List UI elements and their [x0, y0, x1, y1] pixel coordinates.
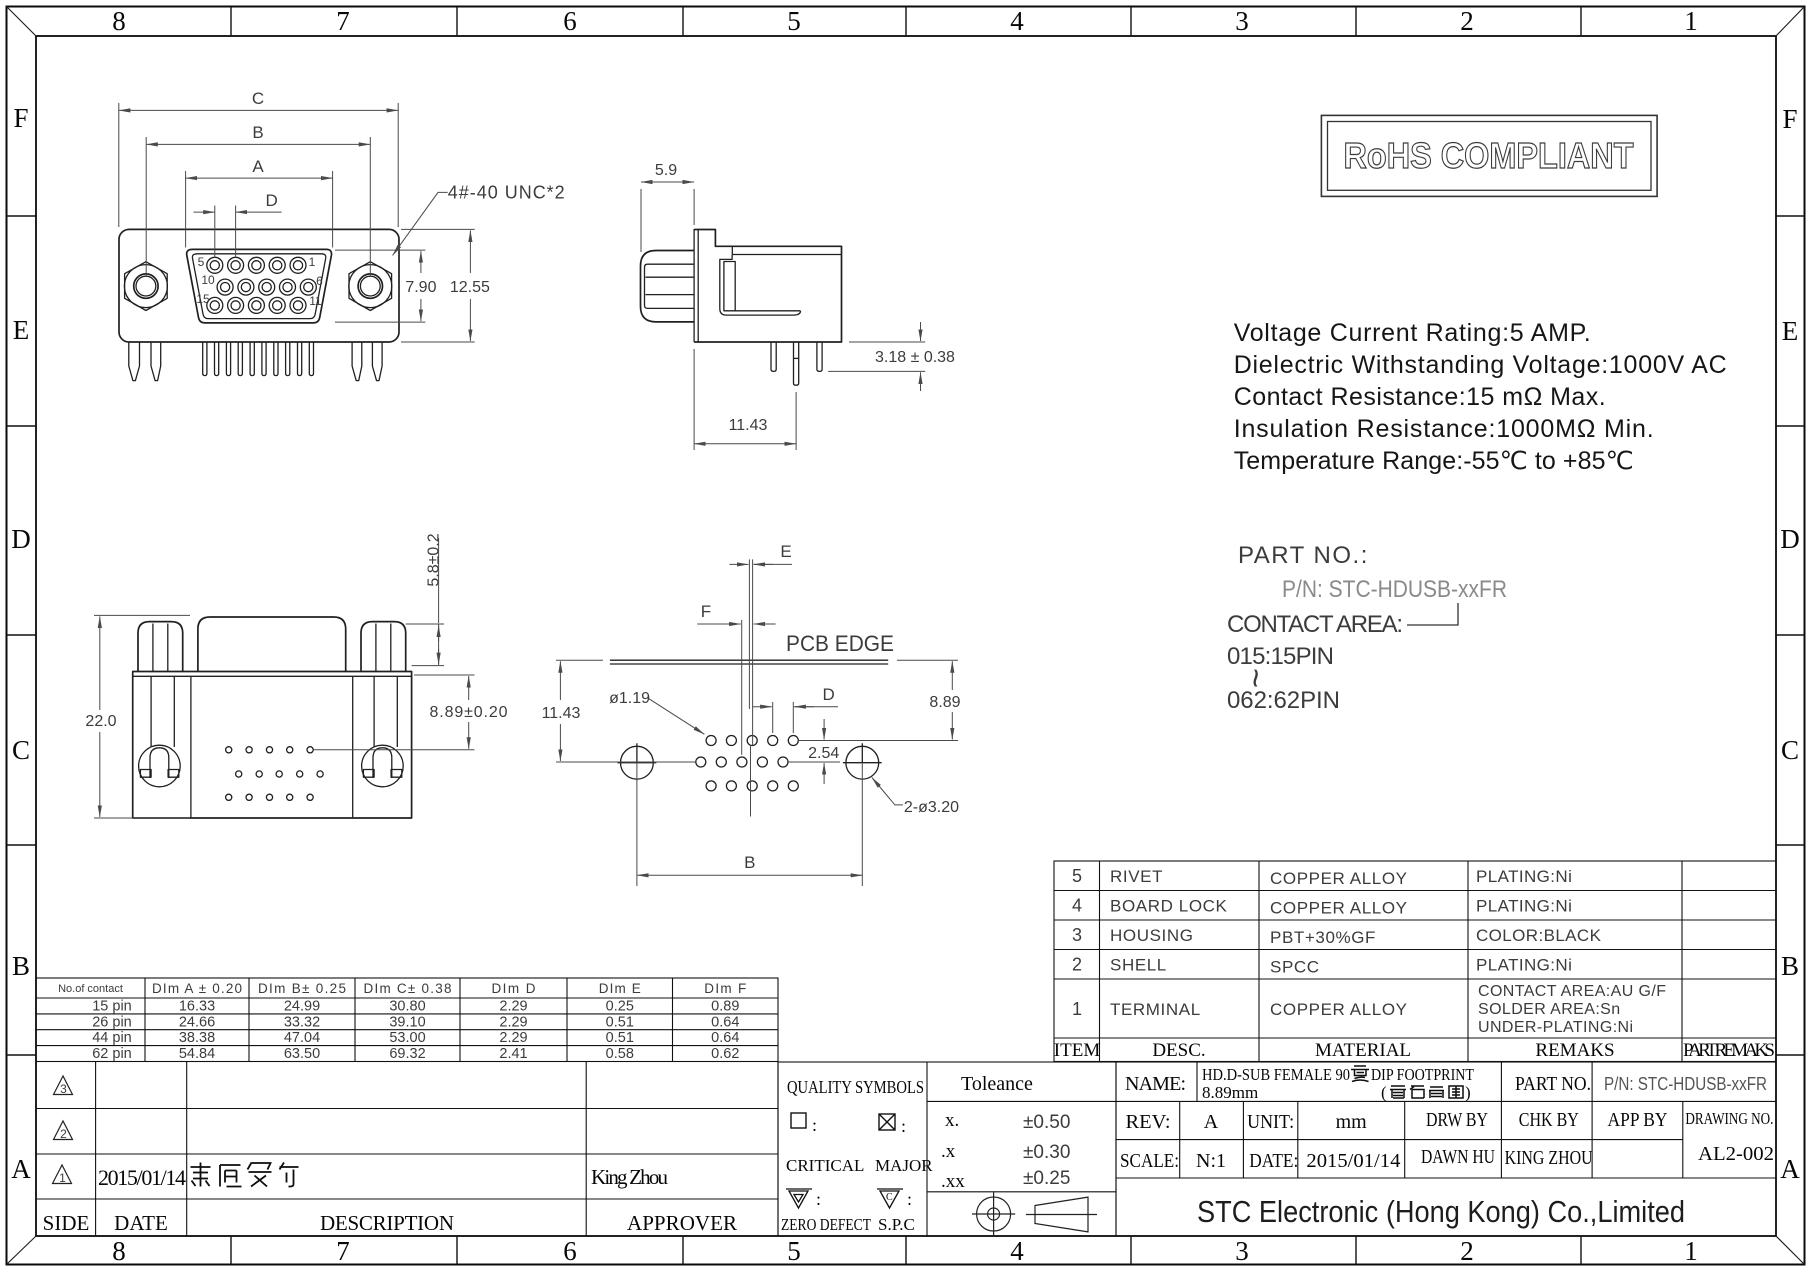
rear left hex nut	[138, 622, 183, 672]
svg-text:REV:: REV:	[1126, 1111, 1171, 1133]
svg-text:24.66: 24.66	[179, 1014, 215, 1030]
svg-text:0.89: 0.89	[711, 999, 739, 1015]
svg-text:1: 1	[59, 1171, 66, 1185]
footprint hole circles row2	[696, 757, 788, 767]
svg-text:5.9: 5.9	[655, 162, 677, 179]
svg-text:DAWN HU: DAWN HU	[1421, 1146, 1495, 1168]
dim table data rows	[92, 999, 739, 1063]
svg-text:DIm E: DIm E	[599, 981, 641, 996]
leader 4#-40 UNC*2	[393, 192, 448, 255]
revision triangle 2	[54, 1121, 73, 1141]
svg-text:D: D	[265, 191, 277, 210]
svg-text:47.04: 47.04	[284, 1030, 320, 1046]
svg-text:King Zhou: King Zhou	[591, 1165, 669, 1189]
svg-text:0.51: 0.51	[606, 1030, 634, 1046]
zone numbers bottom	[112, 1236, 1698, 1266]
svg-text:39.10: 39.10	[389, 1014, 425, 1030]
BOM item numbers	[1072, 866, 1082, 1019]
svg-text:2.29: 2.29	[499, 1014, 527, 1030]
svg-text:5.8±0.2: 5.8±0.2	[426, 533, 443, 586]
svg-text:2: 2	[60, 1127, 67, 1141]
svg-text:11.43: 11.43	[542, 705, 581, 722]
revision triangle 1	[53, 1165, 72, 1185]
svg-text:DIm B± 0.25: DIm B± 0.25	[258, 981, 346, 996]
svg-text:ø1.19: ø1.19	[609, 690, 650, 707]
rear right hex nut	[361, 622, 406, 672]
svg-text:E: E	[780, 542, 791, 561]
side body outline	[694, 230, 841, 343]
svg-text:PBT+30%GF: PBT+30%GF	[1270, 928, 1376, 947]
rear pin dots row1	[226, 747, 314, 753]
svg-text:RIVET: RIVET	[1110, 867, 1163, 886]
major symbol (boxed X)	[879, 1114, 895, 1130]
side body L-channel	[720, 255, 801, 315]
svg-text:1: 1	[1684, 6, 1698, 36]
dim table headers	[58, 981, 746, 996]
svg-text:7: 7	[336, 6, 350, 36]
svg-text:3: 3	[60, 1082, 67, 1096]
svg-text:015:15PIN: 015:15PIN	[1227, 643, 1334, 670]
dimension C	[119, 103, 398, 227]
svg-text:No.of contact: No.of contact	[58, 983, 123, 995]
svg-text:24.99: 24.99	[284, 999, 320, 1015]
svg-text:COPPER ALLOY: COPPER ALLOY	[1270, 1000, 1408, 1019]
svg-text:Insulation Resistance:1000MΩ M: Insulation Resistance:1000MΩ Min.	[1234, 415, 1654, 443]
svg-text:HOUSING: HOUSING	[1110, 926, 1194, 945]
svg-text:DIm C± 0.38: DIm C± 0.38	[364, 981, 452, 996]
svg-text:CRITICAL: CRITICAL	[786, 1156, 864, 1175]
svg-text:C: C	[1781, 735, 1799, 765]
svg-text:4: 4	[1010, 6, 1024, 36]
revision table headers	[43, 1211, 737, 1235]
svg-text:.xx: .xx	[941, 1171, 965, 1192]
side pins	[771, 342, 822, 385]
svg-text:3: 3	[1235, 1236, 1249, 1266]
right hole centerline	[861, 763, 863, 886]
svg-text::: :	[812, 1115, 817, 1135]
svg-text:2: 2	[1460, 6, 1474, 36]
BOM header row	[1054, 1040, 1775, 1061]
side jack screw nut	[641, 251, 695, 322]
svg-text:B: B	[744, 853, 755, 872]
svg-text:1: 1	[1072, 999, 1082, 1019]
svg-text:SOLDER AREA:Sn: SOLDER AREA:Sn	[1478, 1001, 1621, 1018]
svg-text:4: 4	[1010, 1236, 1024, 1266]
svg-text:REMAKS: REMAKS	[1535, 1040, 1614, 1061]
svg-text:062:62PIN: 062:62PIN	[1227, 687, 1340, 714]
svg-text::: :	[907, 1189, 912, 1209]
svg-text:1: 1	[1684, 1236, 1698, 1266]
front pins row2	[217, 279, 316, 295]
svg-text:0.64: 0.64	[711, 1014, 739, 1030]
svg-text:12.55: 12.55	[450, 279, 490, 296]
side nut facets	[645, 264, 695, 308]
svg-text:DIm D: DIm D	[492, 981, 536, 996]
svg-text:11: 11	[309, 294, 322, 308]
svg-text:D: D	[823, 685, 835, 704]
dimension 5.9	[641, 189, 694, 252]
svg-text::: :	[901, 1116, 906, 1136]
svg-text:A: A	[1204, 1111, 1219, 1133]
position target symbol	[972, 1192, 1015, 1235]
svg-text:0.51: 0.51	[606, 1014, 634, 1030]
zone numbers top	[112, 6, 1698, 36]
svg-text:11.43: 11.43	[729, 417, 768, 434]
svg-text:DIm A ± 0.20: DIm A ± 0.20	[152, 981, 242, 996]
front view body shell	[119, 229, 399, 342]
svg-text:Voltage Current Rating:5 AMP.: Voltage Current Rating:5 AMP.	[1234, 319, 1591, 347]
svg-text:HD.D-SUB FEMALE 90: HD.D-SUB FEMALE 90	[1202, 1065, 1350, 1084]
svg-text:D: D	[1780, 524, 1800, 554]
svg-text:C: C	[252, 89, 264, 108]
svg-text:10: 10	[201, 273, 215, 287]
footprint left mounting hole	[618, 743, 657, 779]
svg-text:DRW BY: DRW BY	[1426, 1109, 1488, 1131]
svg-text:CHK BY: CHK BY	[1519, 1109, 1579, 1131]
svg-text:B: B	[1781, 951, 1799, 981]
svg-text:69.32: 69.32	[389, 1046, 425, 1062]
svg-text:C: C	[12, 735, 30, 765]
svg-text:SHELL: SHELL	[1110, 956, 1167, 975]
svg-text:2.29: 2.29	[499, 1030, 527, 1046]
left hex jack screw	[124, 262, 167, 311]
svg-text:5: 5	[1072, 866, 1082, 886]
CJK deg (du) glyph	[1351, 1066, 1369, 1082]
front pins row3	[207, 297, 306, 313]
svg-text:63.50: 63.50	[284, 1046, 320, 1062]
svg-text:15 pin: 15 pin	[92, 999, 132, 1015]
svg-text:APP BY: APP BY	[1608, 1109, 1668, 1131]
svg-text:8.89: 8.89	[929, 694, 960, 711]
svg-text:16.33: 16.33	[179, 999, 215, 1015]
svg-text:26 pin: 26 pin	[92, 1014, 132, 1030]
svg-text:6: 6	[316, 274, 323, 288]
cone / taper symbol	[1026, 1197, 1097, 1232]
svg-text:TERMINAL: TERMINAL	[1110, 1000, 1201, 1019]
svg-text:.x: .x	[941, 1141, 956, 1162]
leader from xx to contact area	[1407, 603, 1458, 625]
svg-text:mm: mm	[1336, 1111, 1368, 1133]
leader 2-diameter 3.20	[872, 778, 903, 805]
svg-text:COPPER ALLOY: COPPER ALLOY	[1270, 869, 1408, 888]
svg-text:15: 15	[196, 292, 210, 306]
svg-text:C: C	[886, 1192, 893, 1203]
svg-text:2: 2	[1460, 1236, 1474, 1266]
svg-text:B: B	[12, 951, 30, 981]
rear center hump	[198, 617, 346, 672]
svg-text:2.54: 2.54	[808, 745, 839, 762]
svg-text:30.80: 30.80	[389, 999, 425, 1015]
svg-text:2.41: 2.41	[499, 1046, 527, 1062]
front view D-sub shroud inner	[192, 254, 325, 319]
svg-text:Dielectric Withstanding Voltag: Dielectric Withstanding Voltage:1000V AC	[1234, 351, 1727, 379]
svg-text:DESC.: DESC.	[1152, 1040, 1205, 1061]
dimension E	[729, 563, 748, 565]
svg-text:8.89mm: 8.89mm	[1202, 1083, 1258, 1102]
svg-text:53.00: 53.00	[389, 1030, 425, 1046]
svg-text:CONTACT AREA:AU G/F: CONTACT AREA:AU G/F	[1478, 983, 1666, 1000]
svg-text:2015/01/14: 2015/01/14	[98, 1165, 186, 1190]
svg-text:PART NO.: PART NO.	[1515, 1073, 1591, 1095]
dimension 8.89 +/- 0.20 (rear)	[314, 675, 475, 750]
dimension D (pin pitch)	[215, 206, 236, 258]
svg-text:KING ZHOU: KING ZHOU	[1505, 1147, 1593, 1169]
revision description (CJK simplified)	[191, 1163, 299, 1187]
svg-text:8: 8	[112, 6, 126, 36]
svg-text:SIDE: SIDE	[43, 1211, 90, 1235]
svg-text:x.: x.	[945, 1110, 959, 1131]
svg-text:6: 6	[563, 6, 577, 36]
svg-text:CONTACT AREA:: CONTACT AREA:	[1227, 611, 1404, 638]
svg-text:Temperature Range:-55℃ to +85℃: Temperature Range:-55℃ to +85℃	[1234, 447, 1634, 475]
svg-text:F: F	[701, 602, 711, 621]
critical symbol (square)	[791, 1113, 806, 1128]
svg-text:COLOR:BLACK: COLOR:BLACK	[1476, 926, 1602, 945]
zone row ticks right	[1776, 216, 1805, 1055]
right hex jack screw	[349, 262, 392, 311]
rear top flange line	[133, 675, 412, 677]
svg-text:AL2-002: AL2-002	[1698, 1143, 1774, 1165]
svg-text:DATE:: DATE:	[1249, 1150, 1298, 1172]
dimension 5.8 +/- 0.2 (rotated)	[406, 538, 444, 666]
svg-text:SCALE:: SCALE:	[1120, 1150, 1179, 1172]
svg-text:(: (	[1381, 1083, 1387, 1102]
svg-text:D: D	[11, 524, 31, 554]
footprint right mounting hole	[843, 743, 882, 779]
rear pin dots row3	[226, 794, 314, 800]
svg-text:0.64: 0.64	[711, 1030, 739, 1046]
rear right board lock	[362, 676, 404, 787]
dimension 7.90	[335, 250, 425, 322]
rear body	[133, 672, 412, 819]
rear left board lock	[139, 676, 181, 787]
zero defect symbol	[786, 1189, 812, 1208]
svg-text:±0.50: ±0.50	[1023, 1112, 1070, 1133]
svg-text:Contact Resistance:15 mΩ Max.: Contact Resistance:15 mΩ Max.	[1234, 383, 1606, 411]
dimension B (footprint)	[637, 874, 862, 876]
spc symbol	[877, 1189, 903, 1208]
svg-text:ZERO DEFECT: ZERO DEFECT	[781, 1215, 871, 1234]
dimension A	[186, 171, 333, 248]
svg-text:5: 5	[787, 1236, 801, 1266]
dimension 12.55	[401, 229, 475, 342]
svg-text:3: 3	[1235, 6, 1249, 36]
svg-text:2-ø3.20: 2-ø3.20	[904, 799, 959, 816]
svg-text:Toleance: Toleance	[961, 1073, 1033, 1095]
dimension 11.43 (side)	[694, 349, 796, 450]
svg-text:6: 6	[563, 1236, 577, 1266]
side body inner top line	[732, 246, 841, 254]
front view D-sub shroud outer	[187, 249, 332, 323]
svg-text:7.90: 7.90	[405, 279, 436, 296]
dimension D (footprint)	[773, 702, 794, 733]
svg-text:QUALITY SYMBOLS: QUALITY SYMBOLS	[787, 1077, 924, 1097]
svg-text:62 pin: 62 pin	[92, 1046, 132, 1062]
svg-text:PART REMAKS: PART REMAKS	[1683, 1040, 1775, 1061]
svg-text:DIP FOOTPRINT: DIP FOOTPRINT	[1371, 1065, 1475, 1084]
svg-text:PLATING:Ni: PLATING:Ni	[1476, 956, 1572, 975]
svg-text:7: 7	[336, 1236, 350, 1266]
svg-text:SPCC: SPCC	[1270, 958, 1320, 977]
svg-text:44 pin: 44 pin	[92, 1030, 132, 1046]
BOM descriptions	[1110, 867, 1228, 1019]
svg-text:4#-40 UNC*2: 4#-40 UNC*2	[448, 183, 565, 203]
electrical spec text	[1234, 319, 1727, 475]
svg-text:DIm F: DIm F	[704, 981, 746, 996]
zone row ticks left	[7, 216, 37, 1055]
dimension 8.89 (footprint)	[798, 660, 958, 740]
svg-text:2015/01/14: 2015/01/14	[1306, 1150, 1400, 1172]
RoHS compliant box	[1321, 115, 1657, 196]
svg-text:PLATING:Ni: PLATING:Ni	[1476, 897, 1572, 916]
zone column ticks top	[231, 7, 1581, 37]
svg-text:0.62: 0.62	[711, 1046, 739, 1062]
dimension 3.18 +/- 0.38	[828, 342, 925, 371]
svg-text:33.32: 33.32	[284, 1014, 320, 1030]
scale row labels	[1120, 1143, 1774, 1172]
dimension B	[146, 137, 370, 277]
side body slot	[724, 262, 735, 311]
svg-text::: :	[816, 1189, 821, 1209]
svg-text:F: F	[1782, 104, 1797, 134]
rear pin dots row2	[236, 771, 324, 777]
revision triangle 3	[54, 1076, 73, 1096]
svg-text:A: A	[1780, 1154, 1800, 1184]
svg-text:~: ~	[1236, 668, 1274, 688]
svg-text:DESCRIPTION: DESCRIPTION	[320, 1211, 454, 1235]
svg-text:±0.30: ±0.30	[1023, 1142, 1070, 1163]
front bottom DIP legs	[203, 342, 314, 376]
side body inner bottom line	[735, 310, 800, 312]
dimension 11.43 (footprint)	[556, 660, 696, 762]
svg-text:E: E	[13, 315, 30, 345]
dimension F	[697, 623, 740, 625]
title block grid	[1116, 1101, 1776, 1178]
svg-text:3.18 ± 0.38: 3.18 ± 0.38	[875, 349, 955, 366]
svg-text:MATERIAL: MATERIAL	[1315, 1040, 1411, 1061]
svg-text:NAME:: NAME:	[1125, 1073, 1186, 1095]
svg-text:2: 2	[1072, 955, 1082, 975]
svg-text:BOARD LOCK: BOARD LOCK	[1110, 897, 1228, 916]
svg-text:0.58: 0.58	[606, 1046, 634, 1062]
svg-text:5: 5	[198, 255, 205, 269]
pin number labels	[196, 255, 323, 308]
svg-text:STC Electronic (Hong Kong) Co.: STC Electronic (Hong Kong) Co.,Limited	[1197, 1194, 1685, 1229]
zone column ticks bottom	[231, 1236, 1581, 1265]
rev row labels	[1126, 1109, 1774, 1133]
footprint hole circles row1	[706, 736, 798, 746]
svg-text:APPROVER: APPROVER	[627, 1211, 737, 1235]
svg-text:MAJOR: MAJOR	[875, 1156, 933, 1175]
svg-text:F: F	[13, 103, 28, 133]
svg-text:): )	[1465, 1083, 1471, 1102]
zone letters left	[11, 103, 31, 1184]
svg-text:38.38: 38.38	[179, 1030, 215, 1046]
svg-text:22.0: 22.0	[85, 713, 116, 730]
svg-text:P/N: STC-HDUSB-xxFR: P/N: STC-HDUSB-xxFR	[1282, 576, 1507, 603]
svg-text:N:1: N:1	[1196, 1150, 1226, 1172]
svg-text:5: 5	[787, 6, 801, 36]
svg-text:DATE: DATE	[114, 1211, 168, 1235]
leader diameter 1.19	[647, 698, 704, 735]
svg-text:3: 3	[1072, 925, 1082, 945]
svg-text:RoHS COMPLIANT: RoHS COMPLIANT	[1344, 135, 1634, 176]
footprint hole circles row3	[706, 781, 798, 791]
svg-text:A: A	[252, 157, 264, 176]
svg-text:54.84: 54.84	[179, 1046, 215, 1062]
svg-text:8.89±0.20: 8.89±0.20	[430, 704, 508, 721]
svg-text:E: E	[1782, 316, 1799, 346]
svg-text:UNIT:: UNIT:	[1247, 1111, 1294, 1133]
svg-text:S.P.C: S.P.C	[878, 1215, 915, 1234]
svg-text:4: 4	[1072, 896, 1082, 916]
svg-text:8: 8	[112, 1236, 126, 1266]
front pins row1	[207, 257, 306, 273]
footprint centerline verticals (E/F reference)	[742, 559, 753, 816]
svg-text:COPPER ALLOY: COPPER ALLOY	[1270, 899, 1408, 918]
svg-text:±0.25: ±0.25	[1023, 1168, 1070, 1189]
PCB edge double line	[610, 660, 888, 664]
left hole centerline	[636, 763, 638, 886]
svg-text:P/N: STC-HDUSB-xxFR: P/N: STC-HDUSB-xxFR	[1604, 1074, 1767, 1094]
dimension 2.54	[788, 761, 840, 763]
dimension 22.0	[94, 615, 190, 818]
svg-text:PLATING:Ni: PLATING:Ni	[1476, 867, 1572, 886]
svg-text:PART NO.:: PART NO.:	[1238, 542, 1369, 569]
svg-text:ITEM: ITEM	[1054, 1040, 1101, 1061]
BOM materials	[1270, 869, 1408, 1019]
svg-text:0.25: 0.25	[606, 999, 634, 1015]
front board lock legs	[129, 342, 382, 381]
svg-text:UNDER-PLATING:Ni: UNDER-PLATING:Ni	[1478, 1019, 1633, 1036]
svg-text:2.29: 2.29	[499, 999, 527, 1015]
zone letters right	[1780, 104, 1800, 1184]
BOM remarks	[1476, 867, 1666, 1036]
svg-text:DRAWING NO.: DRAWING NO.	[1685, 1109, 1773, 1128]
svg-text:A: A	[11, 1154, 31, 1184]
svg-text:B: B	[252, 123, 263, 142]
rear side dividers	[191, 676, 353, 818]
side flange plate	[694, 229, 698, 342]
svg-text:1: 1	[309, 255, 316, 269]
svg-text:PCB EDGE: PCB EDGE	[786, 631, 894, 656]
